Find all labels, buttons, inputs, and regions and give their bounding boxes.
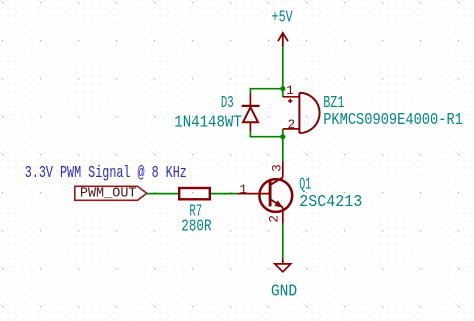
wire: diode anode to bottom junction <box>250 131 282 137</box>
svg-text:2: 2 <box>267 215 281 223</box>
wire: +5V to top junction <box>282 47 284 89</box>
svg-text:3: 3 <box>270 164 284 172</box>
svg-text:GND: GND <box>271 281 297 300</box>
transistor Q1 emitter pin <box>282 208 284 224</box>
svg-text:1: 1 <box>286 84 294 98</box>
buzzer BZ1 body <box>299 93 319 133</box>
wire: R7 to Q1 base <box>211 193 238 195</box>
transistor Q1 circle <box>259 179 292 212</box>
buzzer pin 1 <box>283 96 300 98</box>
svg-text:PWM_OUT: PWM_OUT <box>80 186 137 202</box>
transistor Q1 base bar <box>269 181 272 207</box>
svg-text:2: 2 <box>288 118 296 132</box>
svg-text:D3: D3 <box>221 93 234 112</box>
resistor R7 <box>179 188 210 199</box>
global label PWM_OUT outline <box>75 186 147 200</box>
transistor Q1 collector diagonal <box>271 178 283 185</box>
power +5V symbol <box>278 33 288 47</box>
buzzer plus mark <box>288 99 293 103</box>
ground symbol <box>275 259 291 272</box>
transistor Q1 base pin <box>238 193 270 195</box>
wire: Q1 emitter to GND <box>282 224 284 259</box>
wire: bottom junction to Q1 collector <box>282 137 284 162</box>
junction bottom <box>280 134 285 139</box>
svg-text:PKMCS0909E4000-R1: PKMCS0909E4000-R1 <box>323 110 463 129</box>
transistor Q1 emitter arrow <box>274 200 283 207</box>
wire: buzzer pin2 to bottom junction <box>282 129 284 137</box>
svg-text:3.3V PWM Signal @ 8 KHz: 3.3V PWM Signal @ 8 KHz <box>25 163 187 182</box>
svg-text:Q1: Q1 <box>299 174 311 193</box>
transistor Q1 emitter diagonal <box>271 200 283 208</box>
buzzer pin 2 <box>283 128 300 130</box>
svg-text:280R: 280R <box>181 216 211 235</box>
svg-text:+5V: +5V <box>272 8 293 27</box>
wire: top junction to diode cathode <box>250 89 282 94</box>
diode D3 <box>242 94 260 132</box>
wire: PWM_OUT label to R7 <box>147 193 178 195</box>
svg-text:1: 1 <box>240 183 248 197</box>
svg-text:1N4148WT: 1N4148WT <box>174 112 242 131</box>
wire: top junction to buzzer pin1 <box>282 89 284 97</box>
junction top <box>280 86 285 91</box>
svg-text:2SC4213: 2SC4213 <box>299 192 362 211</box>
transistor Q1 collector pin <box>282 161 284 177</box>
